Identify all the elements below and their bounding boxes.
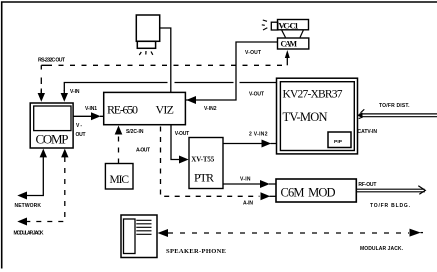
svg-text:V-OUT: V-OUT bbox=[175, 131, 190, 137]
wire SPEAKER-PHONE to MODULAR JACK (dashed) bbox=[158, 229, 424, 252]
svg-text:PTR: PTR bbox=[194, 171, 214, 185]
wire RS-232C control COMP to CAM (dashed) bbox=[38, 50, 290, 102]
wire TV-MON V-OUT to COMP V-IN bbox=[61, 83, 277, 102]
svg-text:VC-C1: VC-C1 bbox=[279, 21, 299, 31]
svg-text:A-OUT: A-OUT bbox=[136, 147, 150, 153]
svg-text:VIZ: VIZ bbox=[156, 103, 175, 117]
svg-text:MODULAR JACK: MODULAR JACK bbox=[14, 231, 44, 237]
svg-text:RF-OUT: RF-OUT bbox=[358, 182, 376, 188]
svg-text:TO/FR DIST.: TO/FR DIST. bbox=[379, 103, 410, 109]
svg-text:V-IN2: V-IN2 bbox=[204, 106, 217, 112]
camera VC-C1 bbox=[262, 20, 309, 38]
wire visualizer head to VIZ bbox=[160, 28, 171, 92]
block RE-650 VIZ bbox=[104, 92, 186, 124]
svg-text:XV-T55: XV-T55 bbox=[191, 155, 215, 163]
visualizer camera head bbox=[136, 15, 159, 55]
svg-text:TV-MON: TV-MON bbox=[283, 110, 328, 124]
svg-text:V-OUT: V-OUT bbox=[249, 91, 264, 97]
block COMP bbox=[30, 103, 73, 148]
block MIC bbox=[105, 164, 133, 190]
svg-text:2 V-IN2: 2 V-IN2 bbox=[249, 131, 268, 137]
svg-text:TO/FR BLDG.: TO/FR BLDG. bbox=[370, 203, 411, 209]
svg-text:PIP: PIP bbox=[334, 139, 343, 145]
svg-text:COMP: COMP bbox=[36, 132, 69, 147]
svg-text:C6M MOD: C6M MOD bbox=[281, 186, 336, 200]
svg-text:CAM: CAM bbox=[281, 40, 298, 49]
svg-text:V-IN: V-IN bbox=[70, 89, 80, 95]
svg-text:RE-650: RE-650 bbox=[107, 103, 138, 117]
wire RE-650 A-OUT to C6M MOD A-IN (dashed) bbox=[136, 127, 276, 207]
svg-text:S/2C-IN: S/2C-IN bbox=[126, 129, 144, 135]
svg-text:V-OUT: V-OUT bbox=[245, 50, 261, 56]
svg-text:V-IN: V-IN bbox=[240, 176, 251, 182]
wire CAM V-OUT to RE-650 V-IN2 bbox=[185, 42, 277, 112]
block C6M MOD bbox=[276, 179, 356, 202]
svg-text:SPEAKER-PHONE: SPEAKER-PHONE bbox=[166, 248, 226, 255]
svg-text:MIC: MIC bbox=[110, 174, 130, 186]
svg-text:RS-232C OUT: RS-232C OUT bbox=[38, 58, 66, 64]
wire COMP to NETWORK bbox=[15, 149, 48, 209]
svg-text:OUT: OUT bbox=[76, 132, 86, 138]
wire COMP V-OUT to RE-650 V-IN1 bbox=[74, 106, 105, 138]
speaker-phone icon bbox=[121, 215, 226, 258]
wire PTR to C6M MOD V-IN bbox=[223, 176, 276, 188]
PIP inset box bbox=[328, 132, 351, 148]
double wire CATV into TV-MON bbox=[357, 103, 437, 135]
wire MIC to RE-650 (dashed) bbox=[115, 126, 144, 164]
svg-text:A-IN: A-IN bbox=[243, 201, 253, 207]
svg-text:MODULAR JACK.: MODULAR JACK. bbox=[360, 246, 404, 252]
svg-text:KV27-XBR37: KV27-XBR37 bbox=[283, 89, 343, 101]
block CAM bbox=[278, 38, 309, 49]
block XV-T55 PTR bbox=[189, 138, 223, 189]
wire COMP to MODULAR JACK (dashed) bbox=[14, 149, 69, 237]
double wire C6M MOD RF-OUT bbox=[356, 182, 425, 209]
wire RE-650 V-OUT to PTR bbox=[171, 125, 189, 164]
svg-text:NETWORK: NETWORK bbox=[15, 203, 42, 209]
block KV27-XBR37 TV-MON bbox=[277, 78, 358, 154]
wire PTR to TV-MON V-IN2 bbox=[223, 131, 277, 147]
svg-text:V-IN1: V-IN1 bbox=[85, 106, 97, 112]
svg-text:CATV-IN: CATV-IN bbox=[358, 129, 378, 135]
